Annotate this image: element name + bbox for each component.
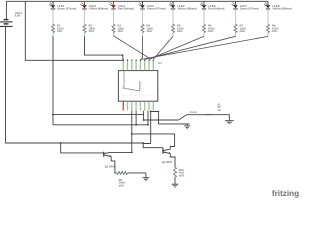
wire column1 long run xyxy=(52,36,54,125)
ground at switch xyxy=(225,121,234,124)
wire column6 diagonal xyxy=(203,33,205,37)
wire b8 branch to small ground xyxy=(151,112,190,124)
svg-text:SV-08: SV-08 xyxy=(190,111,197,114)
wire column8 diagonal xyxy=(267,33,269,37)
wire Q1 collector to b3 xyxy=(111,151,132,153)
wire pin b4 down xyxy=(135,111,137,125)
wire column4 to pin5 xyxy=(142,33,144,37)
wire LED2 cathode xyxy=(84,11,86,25)
battery VCC1 xyxy=(0,1,23,27)
node b7 junction xyxy=(147,124,149,126)
wire Q2 emitter run xyxy=(170,154,175,168)
node ground bus end xyxy=(142,142,144,144)
wire LED6 cathode xyxy=(203,11,205,25)
wire R9 to ground xyxy=(128,172,146,174)
node b6 junction xyxy=(143,119,145,121)
svg-text:Q2 NPN: Q2 NPN xyxy=(162,161,172,164)
wire R1 lead xyxy=(52,33,54,37)
svg-text:±5%: ±5% xyxy=(240,30,246,33)
wire pin b3 to Q1 collector xyxy=(131,111,133,153)
wire pin b6 down to switch line xyxy=(143,111,145,120)
wire switch feed xyxy=(144,119,179,121)
ground at R10 xyxy=(171,184,178,187)
IC bottom pins xyxy=(123,101,153,110)
ground at R9 xyxy=(143,173,150,181)
resistor R8 xyxy=(267,24,280,33)
wire column2 to pin1 xyxy=(84,33,86,37)
LED2 xyxy=(81,1,109,10)
node col1 tee xyxy=(52,114,54,116)
wire LED5 cathode xyxy=(172,11,174,25)
wire Q1 base branch xyxy=(61,143,103,153)
resistor R5 xyxy=(172,24,185,33)
svg-text:Green (570nm): Green (570nm) xyxy=(57,8,76,11)
resistor R3 xyxy=(112,24,125,33)
resistor R9 xyxy=(117,171,128,187)
LED3 xyxy=(110,1,135,10)
wire battery negative down and ground bus xyxy=(6,27,144,143)
wire red stub pin b1 xyxy=(122,102,124,111)
svg-text:Red (640nm): Red (640nm) xyxy=(208,8,224,11)
svg-text:±5%: ±5% xyxy=(179,174,185,177)
svg-text:SPDT: SPDT xyxy=(206,113,213,116)
resistor R4 xyxy=(141,24,154,33)
LED5 xyxy=(169,1,197,10)
resistor R2 xyxy=(83,24,96,33)
wire battery plus branch to IC pin1 xyxy=(25,1,123,60)
wire LED1 cathode xyxy=(52,11,54,25)
svg-text:Yellow (589nm): Yellow (589nm) xyxy=(177,8,197,11)
wire LED7 cathode xyxy=(235,11,237,25)
svg-text:±5%: ±5% xyxy=(57,30,63,33)
node b3 collector junction xyxy=(131,152,133,154)
transistor Q1 xyxy=(103,152,115,169)
resistor R6 xyxy=(203,24,216,33)
svg-text:±5%: ±5% xyxy=(147,30,153,33)
LED1 xyxy=(49,1,76,10)
svg-text:4.8V: 4.8V xyxy=(15,14,21,18)
svg-text:1A: 1A xyxy=(217,109,220,112)
wire column3 diagonal to pin8 xyxy=(113,33,115,36)
LED7 xyxy=(232,1,259,10)
wire column1 upper branch to pin xyxy=(53,114,144,116)
wire LED8 cathode xyxy=(267,11,269,25)
node col2 end xyxy=(122,54,124,56)
node Q1 base tee xyxy=(60,142,62,144)
svg-text:±5%: ±5% xyxy=(272,30,278,33)
LED8 xyxy=(264,1,292,10)
ground small near switch xyxy=(184,124,190,129)
wire column5 diagonal xyxy=(172,33,174,37)
svg-text:±5%: ±5% xyxy=(208,30,214,33)
wire LED3 cathode xyxy=(113,11,115,25)
node b4 junction xyxy=(135,124,137,126)
wire Q2 collector net xyxy=(132,134,175,149)
svg-text:±5%: ±5% xyxy=(89,30,95,33)
LED4 xyxy=(139,1,166,10)
wire R10 to ground xyxy=(174,177,176,184)
svg-text:Yellow (589nm): Yellow (589nm) xyxy=(272,8,292,11)
transistor Q2 xyxy=(162,149,172,164)
node b3 clock junction xyxy=(131,133,133,135)
resistor R7 xyxy=(234,24,247,33)
node pin1 junction xyxy=(122,59,124,61)
LED6 xyxy=(200,1,225,10)
wire column7 diagonal xyxy=(235,33,237,37)
svg-text:±5%: ±5% xyxy=(177,30,183,33)
wire LED4 cathode xyxy=(142,11,144,25)
svg-text:Green (570nm): Green (570nm) xyxy=(147,8,166,11)
node b8 junction xyxy=(150,111,152,113)
svg-text:Q1 NPN: Q1 NPN xyxy=(105,166,115,169)
wire V+ top rail xyxy=(6,0,268,2)
svg-text:±5%: ±5% xyxy=(118,30,124,33)
svg-text:±5%: ±5% xyxy=(119,184,125,187)
svg-text:Green (570nm): Green (570nm) xyxy=(240,8,259,11)
wire pin b7 down xyxy=(147,111,149,125)
wire Q1 emitter run xyxy=(111,157,117,173)
IC top pins xyxy=(123,60,155,71)
switch S1 xyxy=(178,103,229,124)
op IC U1 body xyxy=(118,61,162,101)
svg-text:U1: U1 xyxy=(158,61,162,65)
resistor R1 xyxy=(52,24,65,33)
svg-text:fritzing: fritzing xyxy=(272,189,299,198)
wire column1 lower branch xyxy=(53,124,148,126)
wire pin b8 down xyxy=(150,111,152,144)
svg-text:Yellow (589nm): Yellow (589nm) xyxy=(89,8,109,11)
resistor R10 xyxy=(174,167,185,177)
wire b8 staircase to Q2 base xyxy=(143,143,163,151)
svg-text:Red (640nm): Red (640nm) xyxy=(118,8,134,11)
